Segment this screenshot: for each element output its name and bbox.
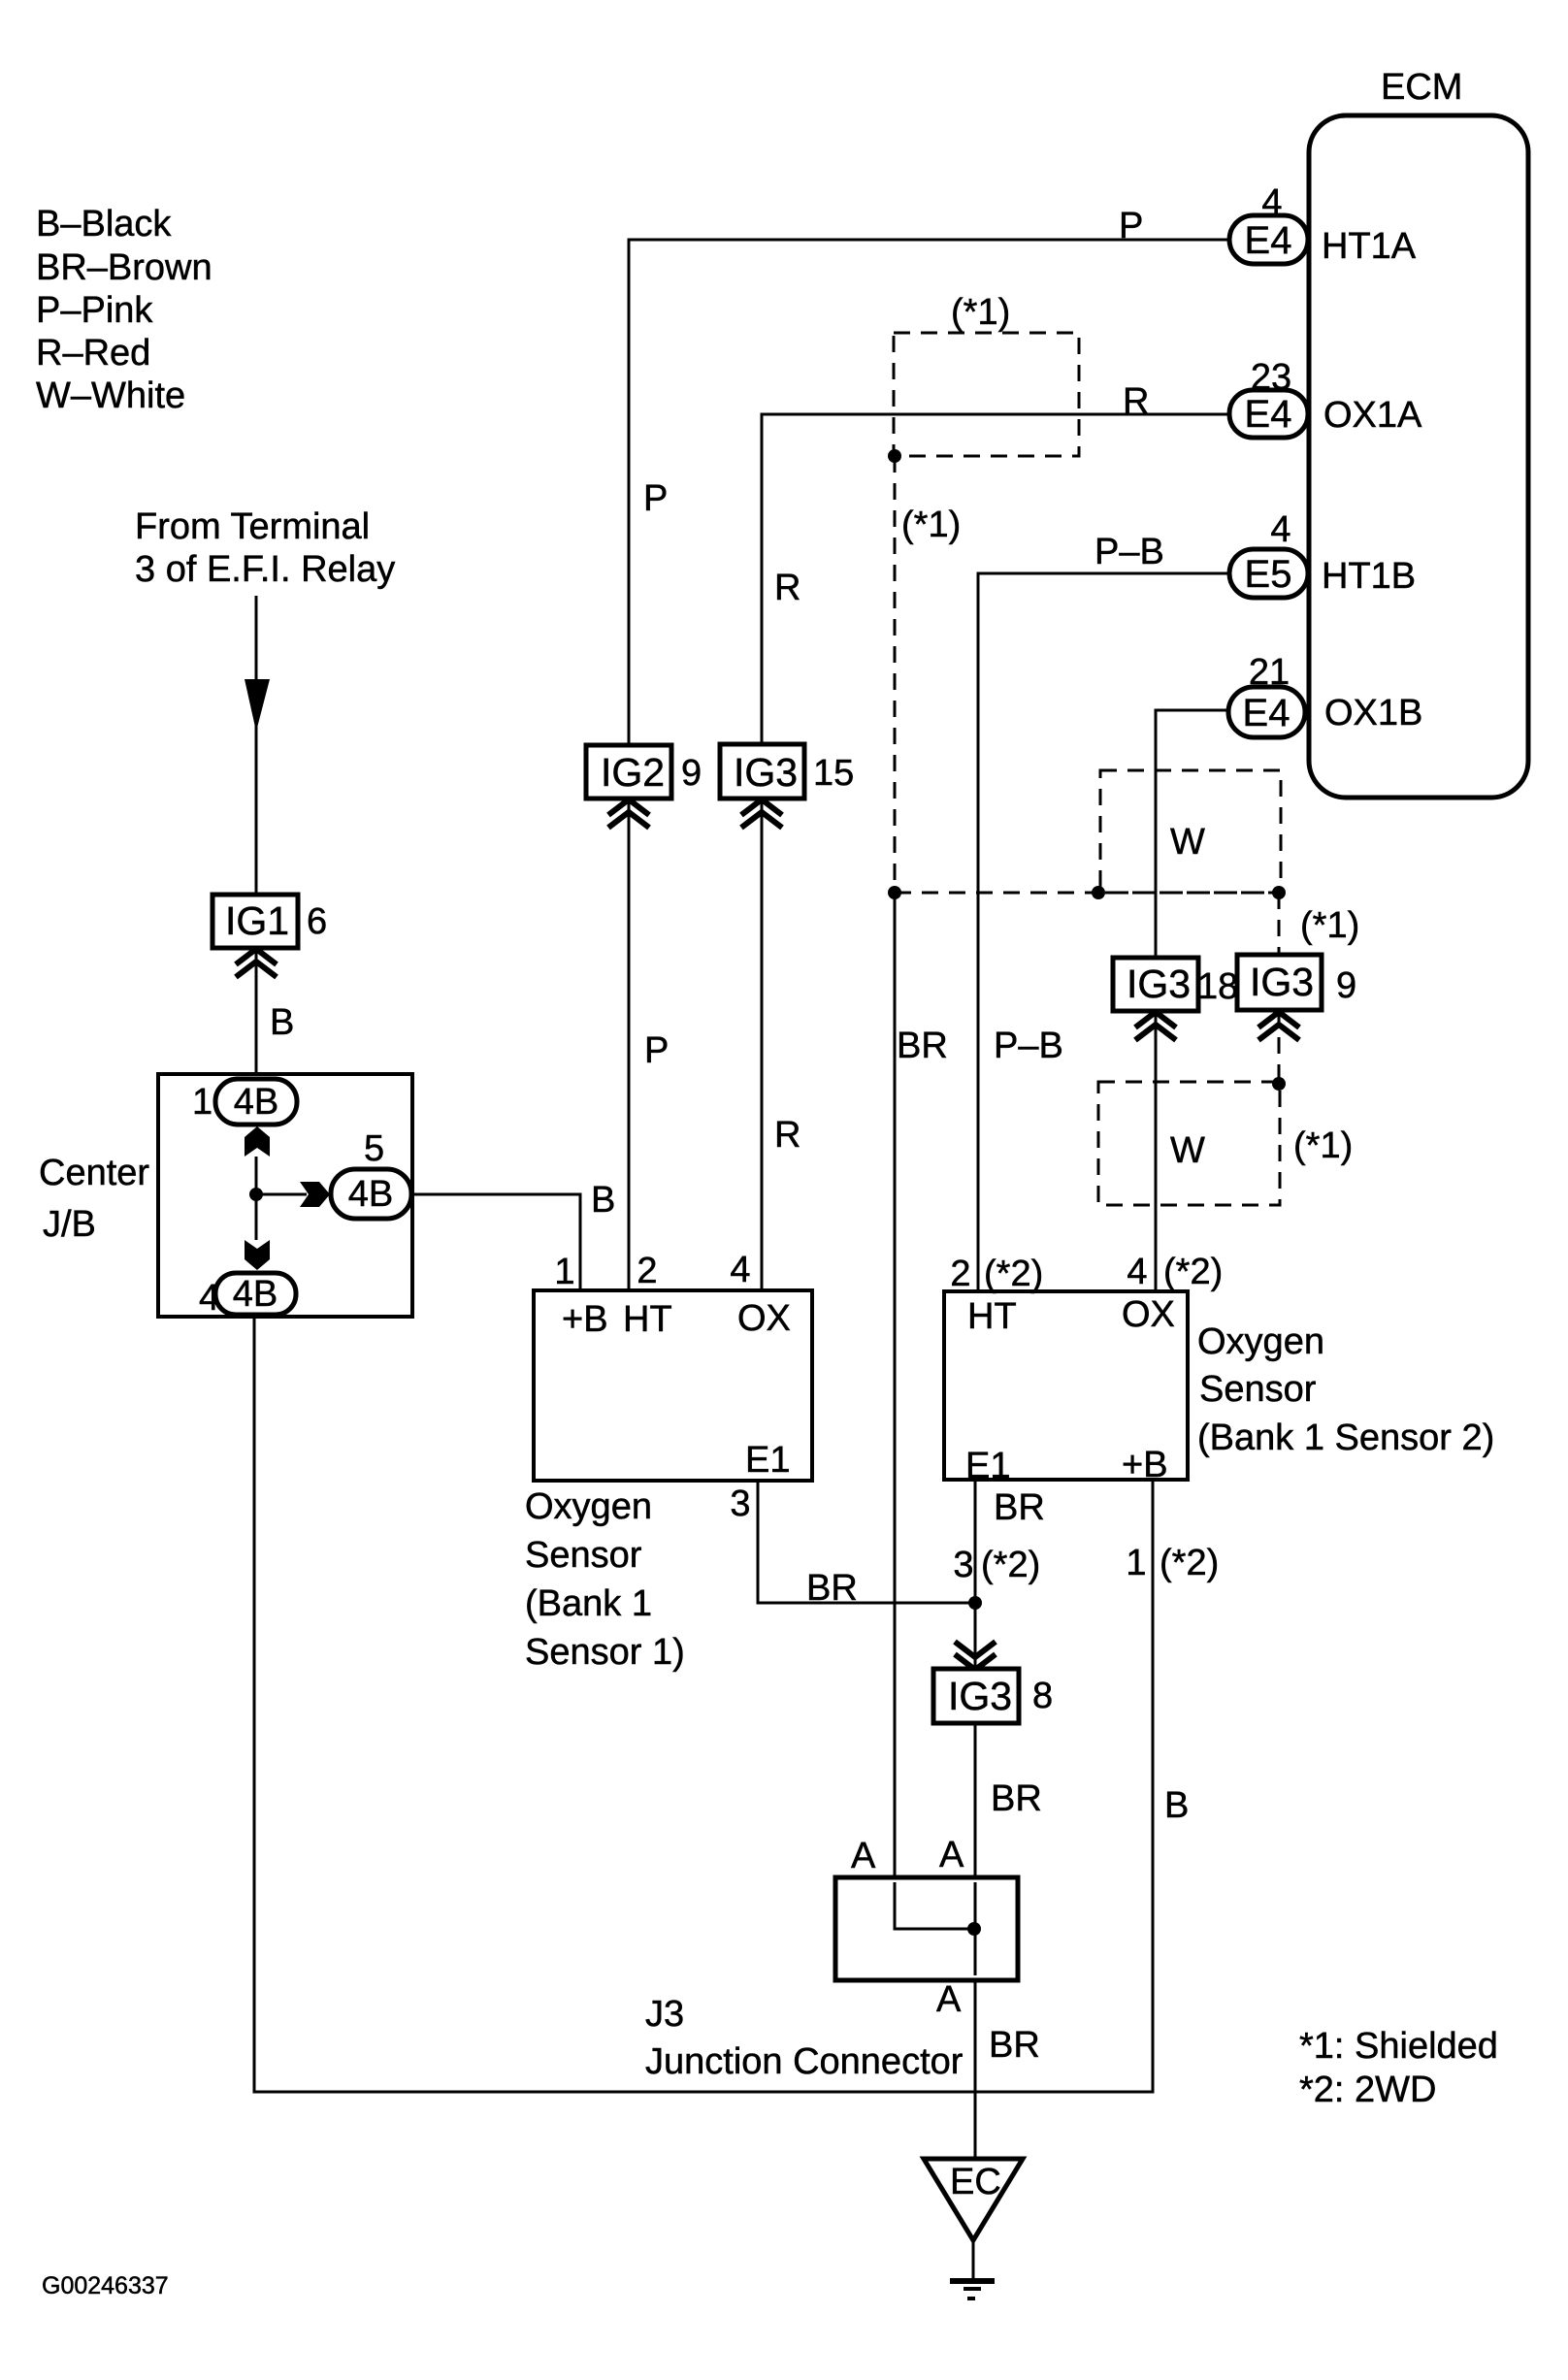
svg-text:15: 15 bbox=[813, 753, 854, 794]
svg-text:21: 21 bbox=[1249, 652, 1290, 693]
svg-text:P: P bbox=[643, 478, 668, 519]
svg-text:(*1): (*1) bbox=[951, 292, 1010, 333]
svg-text:Center: Center bbox=[39, 1153, 149, 1193]
svg-text:B: B bbox=[591, 1180, 615, 1221]
svg-text:J/B: J/B bbox=[43, 1204, 96, 1245]
svg-text:Oxygen: Oxygen bbox=[525, 1486, 652, 1527]
svg-text:HT: HT bbox=[967, 1296, 1017, 1337]
svg-text:5: 5 bbox=[364, 1128, 384, 1169]
svg-text:E5: E5 bbox=[1245, 553, 1292, 596]
svg-text:IG3: IG3 bbox=[734, 750, 798, 795]
svg-text:8: 8 bbox=[1032, 1676, 1053, 1716]
svg-text:HT1A: HT1A bbox=[1322, 226, 1417, 267]
svg-text:4: 4 bbox=[1127, 1252, 1147, 1292]
svg-text:E1: E1 bbox=[965, 1446, 1010, 1486]
svg-text:Sensor 1): Sensor 1) bbox=[525, 1632, 685, 1673]
svg-text:B: B bbox=[270, 1002, 294, 1043]
svg-text:E4: E4 bbox=[1243, 692, 1290, 734]
svg-text:J3: J3 bbox=[645, 1994, 684, 2035]
svg-text:(*1): (*1) bbox=[1300, 905, 1359, 946]
svg-text:ECM: ECM bbox=[1381, 67, 1462, 108]
svg-text:BR: BR bbox=[989, 2025, 1040, 2066]
svg-text:IG3: IG3 bbox=[1127, 962, 1191, 1006]
svg-text:A: A bbox=[936, 1979, 962, 2020]
svg-text:From Terminal: From Terminal bbox=[135, 506, 370, 547]
svg-text:BR: BR bbox=[806, 1568, 858, 1609]
svg-text:P–Pink: P–Pink bbox=[36, 290, 153, 331]
svg-text:P: P bbox=[1119, 206, 1143, 246]
svg-text:BR: BR bbox=[897, 1026, 948, 1066]
svg-text:(*2): (*2) bbox=[1163, 1252, 1223, 1292]
svg-text:EC: EC bbox=[950, 2162, 1001, 2202]
svg-text:(Bank 1 Sensor 2): (Bank 1 Sensor 2) bbox=[1197, 1418, 1494, 1458]
svg-text:9: 9 bbox=[1336, 965, 1356, 1006]
svg-text:1: 1 bbox=[192, 1082, 212, 1123]
svg-text:Sensor: Sensor bbox=[525, 1535, 642, 1576]
svg-text:A: A bbox=[939, 1835, 964, 1875]
svg-text:(*2): (*2) bbox=[984, 1254, 1043, 1294]
svg-text:OX1B: OX1B bbox=[1324, 693, 1422, 734]
svg-text:+B: +B bbox=[1122, 1445, 1168, 1485]
svg-text:P–B: P–B bbox=[994, 1026, 1063, 1066]
svg-text:3 of E.F.I. Relay: 3 of E.F.I. Relay bbox=[135, 549, 395, 590]
svg-text:BR: BR bbox=[994, 1487, 1045, 1528]
svg-text:W: W bbox=[1170, 822, 1205, 863]
svg-text:E4: E4 bbox=[1245, 393, 1292, 436]
svg-text:4: 4 bbox=[1270, 509, 1290, 550]
svg-text:(*1): (*1) bbox=[1293, 1125, 1353, 1166]
svg-text:R–Red: R–Red bbox=[36, 333, 150, 374]
svg-text:P: P bbox=[644, 1030, 669, 1071]
svg-text:3: 3 bbox=[730, 1483, 750, 1524]
svg-text:2: 2 bbox=[950, 1254, 970, 1294]
svg-text:18: 18 bbox=[1197, 966, 1238, 1007]
svg-text:2: 2 bbox=[637, 1251, 657, 1291]
svg-text:P–B: P–B bbox=[1094, 532, 1164, 572]
svg-text:BR: BR bbox=[991, 1778, 1042, 1819]
svg-text:IG3: IG3 bbox=[1250, 960, 1314, 1004]
svg-text:IG1: IG1 bbox=[225, 898, 289, 943]
svg-text:E4: E4 bbox=[1245, 219, 1292, 262]
svg-text:R: R bbox=[774, 568, 800, 608]
svg-text:3: 3 bbox=[953, 1545, 973, 1585]
svg-text:Junction Connector: Junction Connector bbox=[645, 2041, 964, 2082]
svg-text:*2: 2WD: *2: 2WD bbox=[1299, 2070, 1436, 2110]
svg-text:BR–Brown: BR–Brown bbox=[36, 247, 212, 288]
svg-text:IG3: IG3 bbox=[948, 1674, 1012, 1718]
svg-text:23: 23 bbox=[1251, 357, 1291, 398]
svg-text:OX: OX bbox=[1122, 1294, 1175, 1335]
svg-text:R: R bbox=[774, 1115, 800, 1156]
svg-text:1: 1 bbox=[554, 1252, 574, 1292]
svg-text:HT: HT bbox=[623, 1299, 672, 1340]
svg-text:(*1): (*1) bbox=[901, 505, 961, 545]
svg-text:W: W bbox=[1170, 1130, 1205, 1171]
svg-text:G00246337: G00246337 bbox=[42, 2272, 169, 2299]
svg-text:Oxygen: Oxygen bbox=[1197, 1321, 1324, 1362]
svg-text:+B: +B bbox=[562, 1299, 608, 1340]
svg-text:Sensor: Sensor bbox=[1199, 1369, 1317, 1410]
svg-text:OX: OX bbox=[737, 1298, 791, 1339]
svg-text:HT1B: HT1B bbox=[1322, 556, 1416, 597]
svg-text:4: 4 bbox=[199, 1278, 219, 1319]
svg-text:4B: 4B bbox=[233, 1274, 278, 1315]
svg-text:4: 4 bbox=[1261, 182, 1282, 223]
svg-text:4: 4 bbox=[730, 1250, 750, 1290]
svg-text:9: 9 bbox=[681, 753, 702, 794]
svg-text:OX1A: OX1A bbox=[1323, 395, 1422, 436]
svg-text:4B: 4B bbox=[348, 1174, 393, 1215]
svg-text:4B: 4B bbox=[234, 1082, 278, 1123]
svg-text:(*2): (*2) bbox=[1160, 1543, 1219, 1583]
svg-text:E1: E1 bbox=[745, 1440, 790, 1481]
svg-text:B: B bbox=[1164, 1785, 1189, 1826]
svg-text:W–White: W–White bbox=[36, 375, 185, 416]
svg-text:(*2): (*2) bbox=[981, 1545, 1040, 1585]
svg-text:IG2: IG2 bbox=[601, 750, 665, 795]
svg-text:1: 1 bbox=[1126, 1543, 1146, 1583]
svg-text:*1: Shielded: *1: Shielded bbox=[1299, 2026, 1498, 2067]
svg-text:R: R bbox=[1123, 381, 1149, 422]
svg-text:6: 6 bbox=[307, 901, 327, 942]
svg-text:A: A bbox=[851, 1836, 876, 1876]
svg-text:(Bank 1: (Bank 1 bbox=[525, 1583, 652, 1624]
svg-text:B–Black: B–Black bbox=[36, 204, 172, 245]
